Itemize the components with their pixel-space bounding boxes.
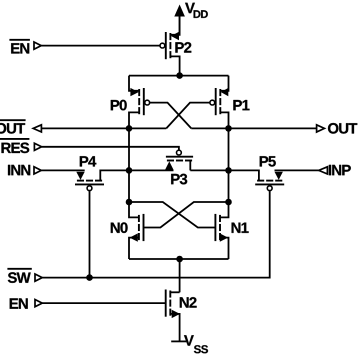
- power terminal VDD arrow: [174, 5, 185, 35]
- node INP-right column junction: [225, 167, 232, 174]
- label VDD: [185, 3, 208, 18]
- node INN-left column junction: [126, 167, 133, 174]
- wire right internal column: [228, 128, 230, 202]
- label P4: [80, 156, 97, 166]
- label P0: [111, 100, 127, 111]
- wire OUT net: [191, 127, 316, 129]
- label INP: [329, 165, 351, 175]
- output terminal OUTbar: [33, 125, 41, 132]
- label OUTbar: [0, 120, 26, 133]
- input terminal SWbar: [35, 274, 42, 281]
- wire ENbar to P2 gate: [41, 45, 159, 47]
- label EN: [10, 298, 28, 308]
- wire P3 right arm: [190, 169, 228, 171]
- transistor N1: [215, 202, 228, 259]
- input terminal EN: [35, 300, 42, 307]
- transistor N0: [129, 202, 144, 259]
- wire INN to P4: [41, 169, 84, 171]
- node NMOS rail junction: [176, 256, 183, 263]
- transistor P0: [129, 76, 150, 129]
- label P5: [260, 156, 276, 166]
- transistor P1: [210, 76, 229, 129]
- node right column X junction: [225, 199, 232, 206]
- wire NMOS source rail: [129, 258, 229, 260]
- wire left internal column: [128, 128, 130, 202]
- wire RESbar to P3 gate: [42, 147, 179, 150]
- node SWbar-P4 junction: [86, 274, 93, 281]
- transistor P2: [160, 16, 180, 76]
- wire OUTbar net: [41, 127, 166, 129]
- node left column X junction: [126, 199, 133, 206]
- transistor P5: [229, 170, 285, 190]
- output terminal OUT: [317, 125, 325, 132]
- wire P4 gate to SWbar: [89, 191, 91, 278]
- label SWbar: [7, 269, 31, 283]
- transistor N2: [166, 290, 180, 342]
- node OUT junction: [225, 125, 232, 132]
- label P1: [233, 100, 249, 110]
- input terminal INN: [34, 167, 41, 174]
- label OUT: [328, 123, 357, 134]
- node OUTbar junction: [126, 125, 133, 132]
- wire SWbar net: [42, 191, 270, 278]
- label P3: [171, 174, 187, 185]
- label N0: [111, 222, 128, 233]
- label N2: [180, 297, 197, 308]
- input terminal RESbar: [34, 143, 41, 150]
- wire P0 gate cross-couple to OUT node: [150, 103, 192, 129]
- label P2: [175, 42, 191, 53]
- node rail-P2 junction: [176, 72, 183, 79]
- wire INP to P5: [275, 169, 319, 171]
- label ENbar: [9, 40, 30, 54]
- wire P3 left arm: [129, 169, 174, 171]
- transistor P3: [165, 150, 193, 170]
- label INN: [8, 165, 30, 175]
- power terminal VSS bar: [171, 340, 186, 342]
- wire N1 gate cross-couple to left node: [129, 202, 216, 228]
- wire P1 gate cross-couple to OUTbar node: [166, 103, 210, 129]
- wire N0 gate cross-couple to right node: [144, 202, 229, 228]
- transistor P4: [75, 170, 129, 190]
- input terminal INP: [319, 167, 328, 174]
- label VSS: [184, 335, 208, 353]
- wire PMOS source rail: [129, 75, 229, 77]
- wire rail to N2 drain: [179, 259, 181, 292]
- wire EN to N2 gate: [42, 302, 166, 304]
- label N1: [232, 223, 249, 233]
- label RESbar: [0, 139, 29, 153]
- input terminal ENbar: [34, 42, 41, 49]
